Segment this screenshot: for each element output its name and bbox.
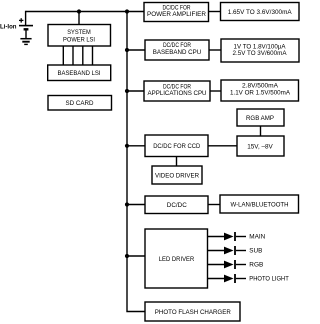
wire LED driver to main LED (208, 236, 225, 238)
svg-text:POWER LSI: POWER LSI (63, 36, 95, 43)
node junction top rail / main bus (125, 9, 129, 13)
wire LED driver to RGB LED (208, 264, 225, 266)
node junction top rail / system power LSI (77, 9, 81, 13)
node junction bus LED row (125, 254, 129, 258)
wire LED driver to photo light LED (208, 278, 225, 280)
svg-text:SUB: SUB (249, 249, 262, 255)
block LED DRIVER (145, 229, 208, 288)
svg-text:2.5V TO 3V/600mA: 2.5V TO 3V/600mA (233, 50, 288, 57)
svg-text:LED DRIVER: LED DRIVER (159, 256, 195, 263)
wire bus to DC/DC for baseband CPU (127, 49, 145, 51)
wire battery riser (25, 11, 27, 25)
node junction bus row 2 (125, 48, 129, 52)
svg-text:DC/DC FOR CCD: DC/DC FOR CCD (153, 143, 200, 150)
wire LSI interconnect 3 (82, 46, 84, 65)
wire bus to DC/DC for CCD (127, 145, 145, 147)
wire box1 to value box (209, 11, 221, 13)
svg-text:1.1V OR 1.5V/500mA: 1.1V OR 1.5V/500mA (230, 89, 291, 96)
svg-text:VIDEO DRIVER: VIDEO DRIVER (155, 172, 199, 179)
svg-text:RGB: RGB (249, 263, 263, 269)
wire RGB amp to 15V box (260, 126, 262, 136)
block W-LAN/BLUETOOTH (220, 195, 299, 213)
wire box5 to value box (210, 90, 221, 92)
wire bus to LED driver (127, 255, 145, 257)
svg-text:APPLICATIONS CPU: APPLICATIONS CPU (148, 90, 207, 97)
svg-text:SYSTEM: SYSTEM (67, 29, 91, 36)
svg-text:RGB AMP: RGB AMP (246, 115, 274, 122)
svg-text:BASEBAND CPU: BASEBAND CPU (153, 49, 202, 56)
svg-text:PHOTO LIGHT: PHOTO LIGHT (249, 277, 289, 283)
svg-text:POWER AMPLIFIER: POWER AMPLIFIER (147, 11, 206, 18)
LED PHOTO LIGHT (224, 274, 289, 283)
block SD CARD (48, 96, 112, 111)
value box 1V TO 1.8V / 2.5V TO 3V (221, 39, 299, 62)
block DC/DC FOR BASEBAND CPU (145, 40, 209, 60)
svg-text:Li-Ion: Li-Ion (0, 23, 17, 30)
value box 2.8V/500mA / 1.1V OR 1.5V/500mA (221, 80, 299, 101)
wire CCD box to video driver (176, 157, 178, 167)
svg-text:SD CARD: SD CARD (66, 100, 94, 107)
svg-text:2.8V/500mA: 2.8V/500mA (242, 82, 279, 89)
wire LED driver to sub LED (208, 250, 225, 252)
block VIDEO DRIVER (152, 166, 202, 184)
battery Li-Ion (0, 18, 33, 38)
wire bus to DC/DC (W-LAN) (127, 204, 145, 206)
block RGB AMP (237, 109, 284, 126)
wire LSI interconnect 1 (62, 46, 64, 65)
svg-text:BASEBAND LSI: BASEBAND LSI (58, 70, 101, 77)
svg-text:15V, –8V: 15V, –8V (247, 143, 273, 150)
ground (20, 39, 31, 45)
wire drop to system power LSI (78, 12, 80, 25)
LED MAIN (224, 232, 265, 241)
block DC/DC FOR CCD (145, 135, 208, 157)
block BASEBAND LSI (48, 65, 111, 81)
svg-text:1.65V TO 3.6V/300mA: 1.65V TO 3.6V/300mA (228, 9, 293, 16)
block DC/DC FOR POWER AMPLIFIER (144, 3, 209, 22)
block SYSTEM POWER LSI (48, 25, 111, 47)
wire main vertical bus (127, 12, 145, 312)
svg-text:DC/DC: DC/DC (167, 202, 187, 209)
wire top rail from battery to DC/DC for power amplifier (26, 11, 144, 13)
wire box3 to value box (209, 49, 221, 51)
node junction bus CCD row (125, 144, 129, 148)
wire LSI interconnect 2 (72, 46, 74, 65)
block DC/DC FOR APPLICATIONS CPU (144, 81, 210, 101)
value box 15V, -8V (237, 136, 284, 156)
LED SUB (224, 246, 262, 255)
svg-text:MAIN: MAIN (249, 235, 265, 241)
wire CCD box to 15V box (208, 145, 237, 147)
node junction bus W-LAN row (125, 202, 129, 206)
node junction bus row 3 (125, 89, 129, 93)
svg-text:W-LAN/BLUETOOTH: W-LAN/BLUETOOTH (231, 201, 289, 208)
block DC/DC (145, 196, 208, 214)
value box 1.65V TO 3.6V/300mA (221, 3, 300, 21)
wire LSI interconnect 4 (92, 46, 94, 65)
wire DC/DC to W-LAN box (208, 204, 220, 206)
LED RGB (224, 260, 263, 269)
wire bus to DC/DC for applications CPU (127, 90, 144, 92)
svg-text:PHOTO FLASH CHARGER: PHOTO FLASH CHARGER (155, 309, 231, 316)
block PHOTO FLASH CHARGER (145, 302, 240, 321)
